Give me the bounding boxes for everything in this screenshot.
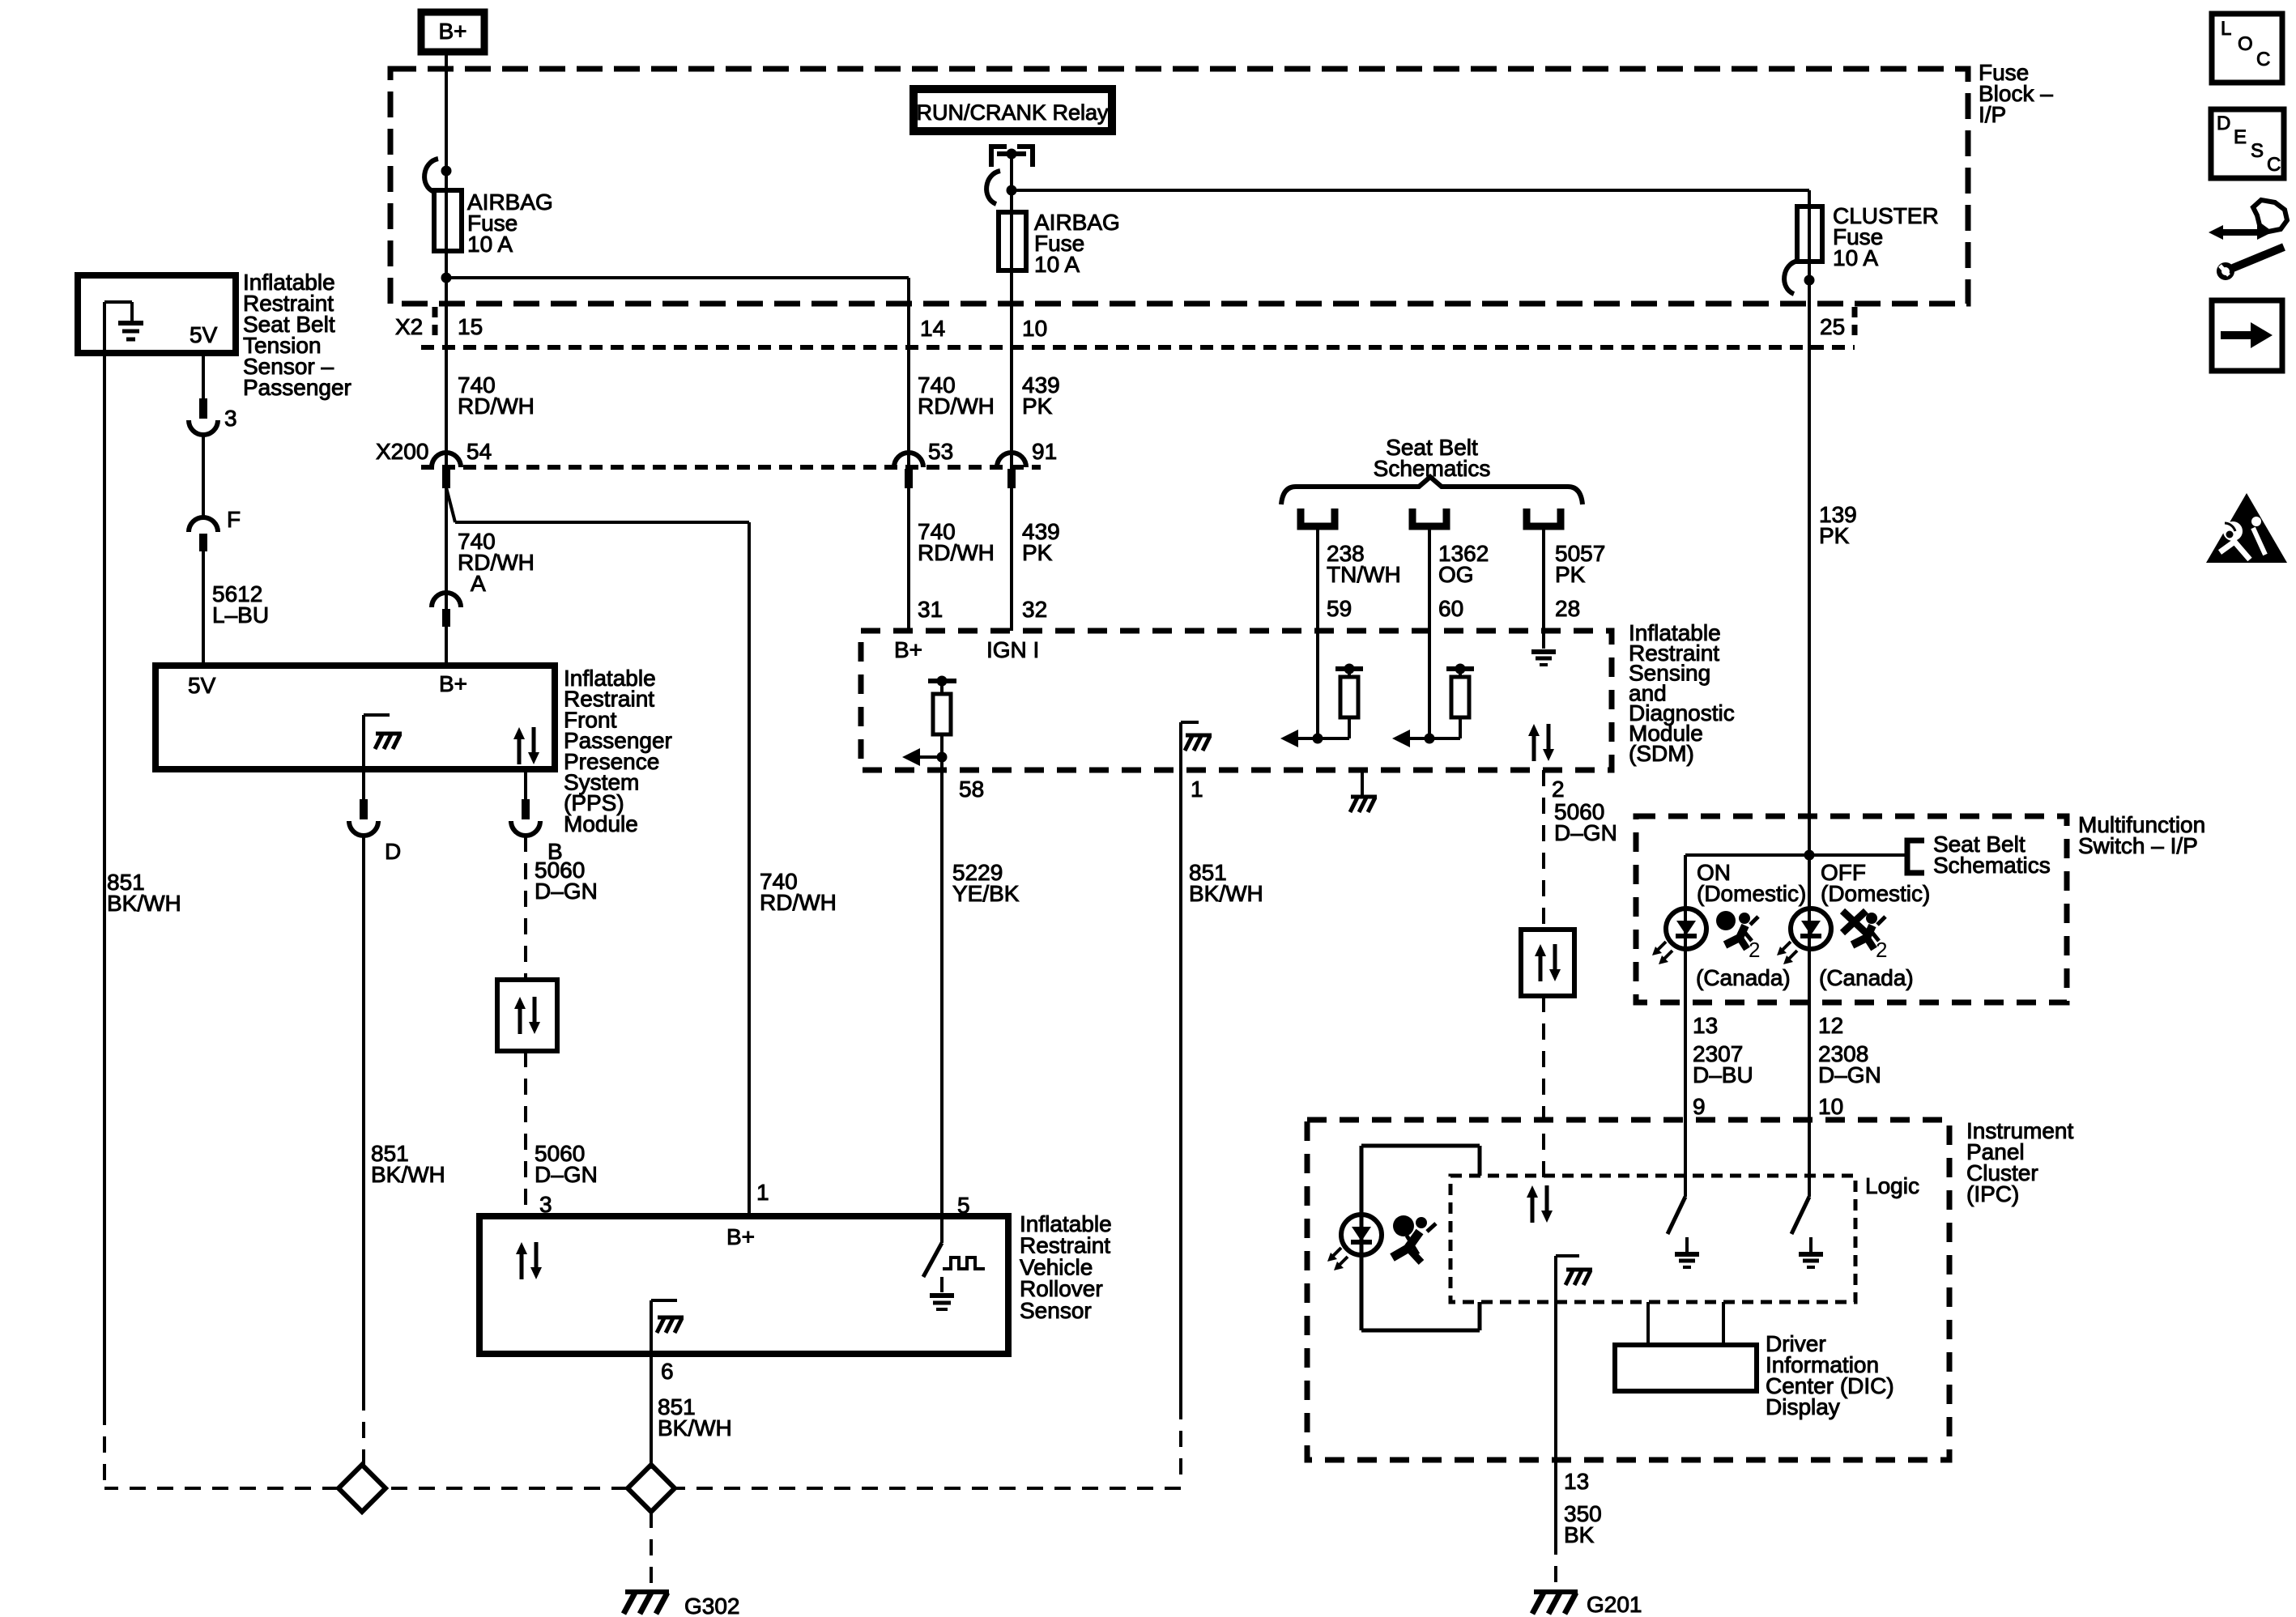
svg-text:D–BU: D–BU	[1693, 1062, 1753, 1087]
svg-text:BK/WH: BK/WH	[107, 891, 181, 916]
svg-text:B+: B+	[894, 637, 922, 662]
svg-text:RD/WH: RD/WH	[918, 394, 995, 419]
svg-text:10 A: 10 A	[1034, 252, 1080, 277]
svg-text:OG: OG	[1438, 562, 1474, 587]
svg-text:1: 1	[1191, 777, 1203, 802]
svg-text:G302: G302	[684, 1594, 740, 1617]
svg-text:BK/WH: BK/WH	[1189, 881, 1263, 906]
svg-text:C: C	[2267, 154, 2281, 176]
svg-text:2: 2	[1552, 777, 1565, 802]
svg-text:10: 10	[1022, 316, 1047, 341]
svg-text:31: 31	[918, 597, 943, 622]
svg-text:RD/WH: RD/WH	[458, 550, 535, 575]
svg-text:B+: B+	[438, 19, 466, 44]
svg-text:C: C	[2256, 49, 2270, 70]
svg-text:RD/WH: RD/WH	[760, 890, 837, 915]
svg-text:13: 13	[1564, 1469, 1589, 1494]
svg-text:60: 60	[1438, 596, 1463, 621]
svg-text:RUN/CRANK Relay: RUN/CRANK Relay	[916, 100, 1109, 125]
svg-text:S: S	[2251, 140, 2264, 162]
svg-text:IGN I: IGN I	[986, 637, 1039, 662]
svg-text:Passenger: Passenger	[243, 375, 351, 400]
svg-text:10 A: 10 A	[1833, 245, 1878, 270]
svg-text:(Canada): (Canada)	[1696, 965, 1791, 990]
svg-text:13: 13	[1693, 1013, 1718, 1038]
svg-text:28: 28	[1555, 596, 1580, 621]
svg-text:5: 5	[957, 1193, 970, 1218]
svg-text:X2: X2	[395, 314, 423, 339]
svg-text:58: 58	[959, 777, 984, 802]
svg-text:10: 10	[1818, 1094, 1843, 1119]
svg-text:D–GN: D–GN	[535, 879, 598, 904]
svg-text:Display: Display	[1766, 1394, 1840, 1419]
svg-text:BK: BK	[1564, 1522, 1595, 1547]
svg-text:6: 6	[661, 1359, 674, 1384]
svg-text:RD/WH: RD/WH	[918, 540, 995, 565]
svg-text:Schematics: Schematics	[1933, 853, 2051, 878]
svg-text:25: 25	[1820, 314, 1845, 339]
svg-text:3: 3	[224, 406, 237, 431]
svg-text:I/P: I/P	[1979, 102, 2006, 127]
svg-text:Sensor: Sensor	[1020, 1298, 1092, 1323]
svg-text:(Canada): (Canada)	[1819, 965, 1914, 990]
svg-text:54: 54	[466, 439, 492, 464]
svg-text:10 A: 10 A	[467, 232, 513, 257]
svg-text:TN/WH: TN/WH	[1327, 562, 1401, 587]
svg-text:PK: PK	[1819, 523, 1850, 548]
svg-text:14: 14	[920, 316, 945, 341]
svg-text:G201: G201	[1587, 1592, 1642, 1617]
svg-text:Logic: Logic	[1865, 1173, 1919, 1198]
svg-text:Schematics: Schematics	[1374, 456, 1491, 481]
svg-text:59: 59	[1327, 596, 1352, 621]
svg-text:91: 91	[1032, 439, 1057, 464]
svg-text:RD/WH: RD/WH	[458, 394, 535, 419]
svg-text:(Domestic): (Domestic)	[1697, 881, 1806, 906]
svg-text:(SDM): (SDM)	[1629, 741, 1694, 766]
svg-text:O: O	[2238, 33, 2253, 55]
svg-text:9: 9	[1693, 1094, 1706, 1119]
svg-text:PK: PK	[1022, 394, 1053, 419]
svg-text:D–GN: D–GN	[1554, 820, 1617, 845]
svg-text:A: A	[471, 571, 486, 596]
svg-text:E: E	[2234, 126, 2247, 148]
svg-text:YE/BK: YE/BK	[952, 881, 1020, 906]
svg-text:D–GN: D–GN	[535, 1162, 598, 1187]
svg-text:1: 1	[756, 1180, 769, 1205]
svg-text:D–GN: D–GN	[1818, 1062, 1881, 1087]
svg-text:B+: B+	[726, 1224, 755, 1249]
svg-text:Module: Module	[564, 811, 638, 836]
svg-text:X200: X200	[376, 439, 428, 464]
svg-text:L: L	[2221, 18, 2231, 40]
svg-text:BK/WH: BK/WH	[371, 1162, 445, 1187]
svg-text:2: 2	[1876, 938, 1887, 962]
svg-text:15: 15	[458, 314, 483, 339]
svg-text:F: F	[227, 507, 241, 532]
svg-text:32: 32	[1022, 597, 1047, 622]
svg-text:D: D	[385, 839, 401, 864]
svg-text:5V: 5V	[190, 322, 218, 347]
svg-text:D: D	[2217, 113, 2230, 134]
svg-text:L–BU: L–BU	[212, 602, 269, 628]
svg-text:3: 3	[539, 1192, 552, 1217]
svg-text:PK: PK	[1022, 540, 1053, 565]
svg-text:53: 53	[928, 439, 953, 464]
svg-text:B+: B+	[439, 671, 467, 696]
svg-text:5V: 5V	[188, 673, 216, 698]
svg-text:PK: PK	[1555, 562, 1586, 587]
svg-text:(Domestic): (Domestic)	[1821, 881, 1930, 906]
svg-text:(IPC): (IPC)	[1966, 1181, 2019, 1206]
svg-text:12: 12	[1818, 1013, 1843, 1038]
svg-text:Switch – I/P: Switch – I/P	[2078, 833, 2198, 858]
svg-text:BK/WH: BK/WH	[658, 1415, 732, 1440]
